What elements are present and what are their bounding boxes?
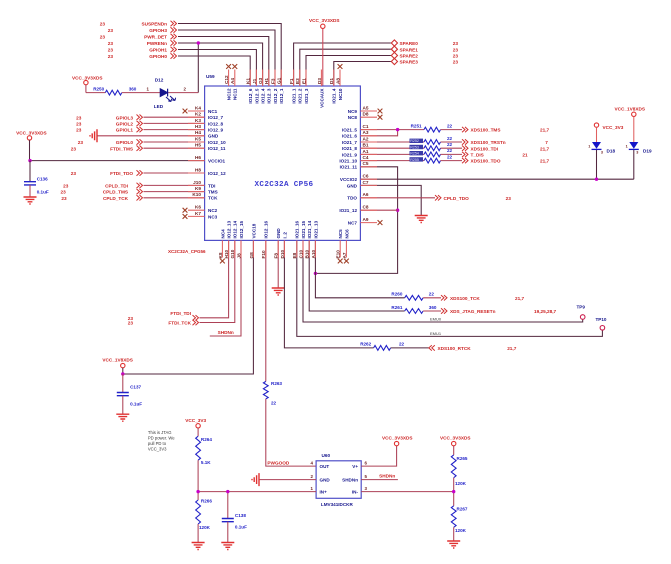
svg-text:H3: H3: [195, 124, 201, 129]
svg-text:This is JTAG: This is JTAG: [148, 430, 172, 435]
CPLD U59 body XC2C32A CP56: [205, 74, 361, 241]
off-page connector GPIOH3: [108, 27, 177, 33]
wire PWRENn to pin G3: [178, 43, 263, 86]
svg-text:XDS_JTAG_RESETn: XDS_JTAG_RESETn: [450, 309, 496, 314]
junction IO21_5/IO21_6: [396, 128, 399, 131]
capacitor C137: [117, 374, 142, 414]
junction R264/IN+: [196, 490, 199, 493]
wire PWGOOD to LDO OUT: [266, 399, 316, 466]
svg-text:IO12_3: IO12_3: [267, 88, 272, 104]
svg-text:IO12_12: IO12_12: [208, 171, 226, 176]
wire FTDI_TDO: [144, 172, 205, 174]
U59 top pin labels: [224, 64, 343, 108]
svg-text:K9: K9: [195, 186, 201, 191]
off-page connector PWRENn: [108, 40, 177, 46]
svg-text:VCC_3V3: VCC_3V3: [603, 125, 624, 130]
wire IO21_9 to R254: [360, 153, 424, 155]
svg-text:22: 22: [271, 401, 277, 406]
wire SHDNn to pin J8: [210, 240, 241, 336]
svg-text:GND: GND: [208, 134, 219, 139]
svg-text:U60: U60: [322, 453, 331, 458]
ground below C7: [415, 216, 428, 223]
svg-text:IO21_5: IO21_5: [342, 128, 358, 133]
svg-text:E8: E8: [292, 252, 297, 258]
svg-text:VCC_3V3: VCC_3V3: [185, 418, 206, 423]
wire VCC18 to VCC_1V8XDS rail: [123, 240, 254, 374]
svg-text:T_DIS: T_DIS: [471, 153, 484, 158]
junction VCCIO1/C136: [28, 159, 31, 162]
svg-text:NC3: NC3: [208, 214, 218, 219]
off-page connector GPIOH0: [108, 53, 177, 59]
resistor R254: [410, 148, 463, 157]
note text: [148, 430, 175, 452]
svg-text:K8: K8: [218, 252, 223, 258]
svg-text:360: 360: [129, 86, 137, 91]
svg-text:I_2: I_2: [282, 232, 287, 239]
off-page connector SPARE1: [391, 46, 458, 52]
svg-text:23: 23: [60, 190, 66, 195]
svg-text:IO21_6: IO21_6: [342, 134, 358, 139]
wire GND pin C7 to ground: [360, 185, 421, 215]
svg-text:K7: K7: [195, 211, 201, 216]
svg-text:23: 23: [76, 128, 82, 133]
off-page connector FTDI_TDO: [71, 170, 143, 176]
off-page connector FTDI_TDI: [128, 311, 199, 321]
svg-text:A10: A10: [311, 250, 316, 259]
diode D18: [588, 142, 615, 155]
svg-text:R254: R254: [410, 152, 419, 156]
svg-text:1: 1: [626, 144, 628, 148]
svg-text:K6: K6: [195, 205, 201, 210]
off-page connector GPIOL1: [76, 127, 142, 133]
svg-text:23: 23: [108, 41, 114, 46]
svg-text:NC6: NC6: [344, 229, 349, 239]
svg-text:NC10: NC10: [338, 88, 343, 100]
power symbol VCC_3V3XDS at VCCAUX: [309, 18, 339, 86]
svg-text:D18: D18: [607, 148, 616, 153]
svg-text:G3: G3: [258, 77, 263, 84]
svg-text:VCC_3V3XDS: VCC_3V3XDS: [382, 436, 412, 441]
off-page connector XDS100_TDI: [462, 146, 550, 152]
ground below C138: [221, 543, 234, 550]
svg-text:IO12_8: IO12_8: [208, 121, 224, 126]
wire FTDI_TDI to pin H10: [200, 240, 229, 317]
resistor R264: [196, 436, 213, 465]
svg-text:A7: A7: [342, 252, 347, 258]
svg-text:LED: LED: [154, 104, 164, 109]
svg-text:IO21_9: IO21_9: [342, 152, 358, 157]
svg-text:V+: V+: [352, 464, 358, 469]
svg-text:IO21_13: IO21_13: [313, 220, 318, 238]
ground below R266: [192, 543, 205, 550]
ground below R267: [447, 541, 460, 548]
svg-text:120K: 120K: [455, 481, 467, 486]
svg-text:XDS100_TCK: XDS100_TCK: [450, 296, 480, 301]
U59 bottom pin labels: [218, 220, 349, 263]
svg-text:H6: H6: [195, 155, 201, 160]
svg-text:5.1K: 5.1K: [201, 460, 211, 465]
svg-text:IO12_6: IO12_6: [248, 88, 253, 104]
svg-text:23: 23: [61, 196, 67, 201]
svg-text:IO12_1: IO12_1: [279, 88, 284, 104]
wire GPIOL1: [144, 129, 205, 131]
svg-text:H8: H8: [195, 167, 201, 172]
svg-text:XDS100_RTCK: XDS100_RTCK: [438, 346, 472, 351]
svg-text:IO21_7: IO21_7: [342, 140, 358, 145]
svg-text:E10: E10: [336, 250, 341, 259]
svg-text:IO12_16: IO12_16: [264, 220, 269, 238]
svg-text:D1: D1: [329, 78, 334, 84]
svg-text:IO21_1: IO21_1: [292, 88, 297, 104]
svg-text:GPIOL3: GPIOL3: [116, 115, 134, 120]
U59 pin stubs: [188, 70, 377, 258]
svg-text:NC7: NC7: [348, 221, 358, 226]
svg-text:H4: H4: [195, 130, 201, 135]
svg-text:22: 22: [399, 342, 405, 347]
svg-text:IO21_4: IO21_4: [332, 88, 337, 104]
svg-text:LMV341IDCKR: LMV341IDCKR: [321, 502, 354, 507]
svg-text:21: 21: [522, 153, 528, 158]
svg-text:23: 23: [453, 41, 459, 46]
net label EMU0: [430, 316, 442, 321]
resistor R265: [451, 455, 468, 486]
svg-text:23: 23: [506, 196, 512, 201]
wire EMU0 to TP9: [303, 240, 583, 322]
svg-text:A5: A5: [363, 105, 369, 110]
off-page connector CPLD_TCK: [61, 195, 142, 201]
resistor R251: [411, 123, 462, 132]
net label SHDNn: [218, 330, 234, 335]
svg-text:C10: C10: [298, 250, 303, 259]
wire U60 GND to ground: [259, 479, 316, 481]
wire GPIOL3: [144, 116, 205, 118]
svg-text:A8: A8: [335, 78, 340, 84]
svg-text:PD power. We: PD power. We: [148, 436, 175, 441]
svg-text:VCC18: VCC18: [251, 223, 256, 238]
svg-text:C6: C6: [363, 174, 369, 179]
svg-text:K10: K10: [192, 192, 201, 197]
off-page connector CPLD_TDI: [63, 183, 142, 189]
svg-text:R267: R267: [457, 507, 468, 512]
svg-text:0.1uF: 0.1uF: [235, 525, 247, 530]
svg-text:J10: J10: [193, 180, 201, 185]
svg-text:NC11: NC11: [233, 88, 238, 100]
svg-text:23: 23: [63, 184, 69, 189]
test point TP9: [577, 305, 586, 320]
svg-text:21,7: 21,7: [515, 296, 525, 301]
diode D19: [626, 142, 652, 155]
svg-text:IO21_12: IO21_12: [339, 208, 357, 213]
svg-text:R260: R260: [391, 292, 402, 297]
svg-text:IO21_14: IO21_14: [307, 220, 312, 238]
svg-text:H10: H10: [224, 250, 229, 259]
svg-text:A3: A3: [363, 130, 369, 135]
wire VCCIO2 to diodes D18 D19: [360, 149, 633, 179]
ground below F8: [272, 288, 285, 295]
capacitor C138: [222, 513, 247, 542]
svg-text:C7: C7: [363, 180, 369, 185]
capacitor C136: [24, 161, 49, 197]
svg-text:NC5: NC5: [338, 229, 343, 239]
svg-text:XDS100_TDO: XDS100_TDO: [471, 159, 501, 164]
svg-text:VCC_3V3XDS: VCC_3V3XDS: [440, 436, 470, 441]
svg-text:FTDI_TMS: FTDI_TMS: [110, 146, 133, 151]
wire GPIOH0 to pin K1: [178, 56, 250, 86]
svg-text:23: 23: [108, 28, 114, 33]
label XC2C32A_CPG56: [168, 249, 206, 254]
svg-text:VCCIO2: VCCIO2: [340, 177, 358, 182]
off-page connector CPLD_TDO: [435, 195, 511, 201]
wire GPIOH1 to pin J1: [178, 50, 256, 87]
op-amp U60 body: [316, 453, 361, 507]
wire PWR_DET to pin H1: [178, 37, 269, 87]
wire CPLD_TDI: [144, 184, 205, 186]
off-page connector SPARE0: [391, 40, 458, 46]
off-page connector XDS100_TCK: [441, 295, 525, 301]
svg-text:G1: G1: [277, 77, 282, 84]
power symbol VCC_3V3 at R264: [185, 418, 206, 436]
svg-text:K3: K3: [195, 118, 201, 123]
svg-text:SPARE0: SPARE0: [400, 41, 419, 46]
svg-text:A9: A9: [363, 217, 369, 222]
wire SPARE0 to pin F1: [294, 43, 391, 86]
svg-text:NC4: NC4: [220, 229, 225, 239]
U60 pin names: [320, 464, 359, 495]
svg-text:XDS100_TMS: XDS100_TMS: [471, 128, 501, 133]
svg-text:pull PD to: pull PD to: [148, 441, 167, 446]
svg-text:NC8: NC8: [348, 115, 358, 120]
ground below C137: [116, 414, 129, 421]
svg-text:GND: GND: [276, 228, 281, 239]
svg-text:NC1: NC1: [208, 109, 218, 114]
U59 right pin labels: [339, 105, 382, 225]
svg-text:R264: R264: [201, 437, 212, 442]
svg-text:22: 22: [447, 148, 453, 153]
svg-text:PWRENn: PWRENn: [147, 41, 167, 46]
junction VCCIO2/D18: [595, 178, 598, 181]
svg-text:1: 1: [588, 144, 590, 148]
svg-text:R253: R253: [410, 145, 419, 149]
svg-text:TDI: TDI: [208, 183, 215, 188]
svg-text:0.1uF: 0.1uF: [37, 189, 49, 194]
svg-text:IO12_5: IO12_5: [254, 88, 259, 104]
svg-text:VCC_3V3XDS: VCC_3V3XDS: [16, 131, 46, 136]
svg-text:R263: R263: [271, 381, 282, 386]
wire FTDI_TMS: [144, 147, 205, 149]
svg-text:SPARE1: SPARE1: [400, 47, 419, 52]
svg-text:IN-: IN-: [352, 490, 359, 495]
wire IO21_6 joins IO21_5: [360, 130, 397, 136]
wire SPARE3 to pin D1: [334, 62, 391, 87]
svg-text:FTDI_TCK: FTDI_TCK: [168, 321, 191, 326]
svg-text:TDO: TDO: [347, 196, 357, 201]
svg-text:IO21_11: IO21_11: [340, 165, 358, 170]
svg-text:23: 23: [71, 146, 77, 151]
svg-text:R250: R250: [93, 86, 104, 91]
resistor R253: [410, 142, 463, 151]
svg-text:IO21_16: IO21_16: [295, 220, 300, 238]
svg-text:TP10: TP10: [596, 317, 607, 322]
svg-text:GPIOH0: GPIOH0: [149, 54, 167, 59]
wire C138 tap: [227, 492, 229, 519]
svg-text:C4: C4: [363, 155, 369, 160]
svg-text:IO21_15: IO21_15: [301, 220, 306, 238]
svg-text:SPARE3: SPARE3: [400, 60, 419, 65]
off-page connector XDS100_RTCK: [429, 345, 517, 351]
wire I_2 to R262: [284, 240, 373, 348]
wire GND to left ground: [97, 135, 205, 137]
svg-text:K2: K2: [195, 112, 201, 117]
off-page connector SPARE3: [391, 58, 458, 64]
svg-text:360: 360: [429, 305, 437, 310]
off-page connector SPARE2: [391, 52, 458, 58]
svg-text:G10: G10: [230, 249, 235, 258]
svg-text:J1: J1: [252, 78, 257, 84]
svg-text:C1: C1: [363, 124, 369, 129]
svg-text:C136: C136: [37, 176, 48, 181]
svg-text:D8: D8: [363, 112, 369, 117]
svg-text:NC2: NC2: [208, 208, 218, 213]
wire R266 to ground: [197, 524, 199, 543]
svg-text:J8: J8: [236, 253, 241, 259]
net label EMU1: [430, 331, 442, 336]
svg-text:F10: F10: [261, 250, 266, 258]
svg-text:K5: K5: [195, 136, 201, 141]
svg-text:CPLD_TCK: CPLD_TCK: [103, 196, 129, 201]
svg-text:NC12: NC12: [227, 88, 232, 100]
svg-text:VCC_1V8XDS: VCC_1V8XDS: [615, 107, 645, 112]
wire IO21_8 to R253: [360, 147, 424, 149]
svg-text:GPIOL2: GPIOL2: [116, 122, 134, 127]
svg-text:B10: B10: [305, 250, 310, 259]
U59 left pin labels: [183, 105, 226, 219]
off-page connector XDS100_TMS: [462, 127, 550, 133]
svg-text:23: 23: [108, 48, 114, 53]
svg-text:22: 22: [447, 142, 453, 147]
svg-text:R265: R265: [457, 456, 468, 461]
svg-text:R255: R255: [410, 158, 419, 162]
svg-text:NC9: NC9: [348, 109, 358, 114]
off-page connector XDS100_TDO: [462, 158, 550, 164]
svg-text:IO12_15: IO12_15: [239, 220, 244, 238]
svg-text:CPLD_TDI: CPLD_TDI: [105, 184, 128, 189]
svg-text:TCK: TCK: [208, 196, 218, 201]
off-page connector FTDI_TCK: [128, 320, 199, 326]
wire V+ to VCC_3V3XDS: [361, 446, 396, 466]
wire SPARE1 to pin E3: [300, 49, 391, 86]
svg-text:PWGOOD: PWGOOD: [267, 461, 289, 466]
svg-text:23: 23: [76, 122, 82, 127]
resistor R261: [391, 305, 441, 314]
resistor R255: [410, 154, 463, 163]
svg-text:C138: C138: [235, 513, 246, 518]
resistor R267: [451, 506, 468, 533]
power symbol VCC_3V3 at D18: [594, 123, 623, 142]
svg-text:CPLD_TDO: CPLD_TDO: [444, 196, 470, 201]
svg-text:IO21_3: IO21_3: [304, 88, 309, 104]
svg-text:F3: F3: [270, 78, 275, 84]
svg-text:IO12_4: IO12_4: [261, 88, 266, 104]
svg-text:D3: D3: [317, 78, 322, 84]
svg-text:C137: C137: [130, 384, 141, 389]
wire IN- to divider: [361, 491, 454, 493]
wire IO21_5 to R251: [360, 129, 424, 131]
svg-text:H5: H5: [195, 143, 201, 148]
svg-text:XC2C32A_CPG56: XC2C32A_CPG56: [168, 249, 206, 254]
svg-text:CPLD_TMS: CPLD_TMS: [103, 190, 128, 195]
svg-text:SHDNn: SHDNn: [342, 478, 358, 483]
svg-text:IO21_8: IO21_8: [342, 146, 358, 151]
resistor R260: [391, 292, 441, 301]
svg-text:R262: R262: [360, 342, 371, 347]
svg-text:IO12_11: IO12_11: [208, 146, 226, 151]
svg-text:H1: H1: [264, 78, 269, 84]
power symbol VCC_3V3XDS at C136: [16, 131, 46, 161]
wire GPIOH3 to pin F3: [178, 30, 275, 86]
svg-text:22: 22: [447, 123, 453, 128]
svg-text:GND: GND: [320, 478, 331, 483]
svg-text:D12: D12: [155, 78, 164, 83]
svg-text:C5: C5: [363, 161, 369, 166]
svg-text:R251: R251: [411, 123, 422, 128]
svg-text:SHDNn: SHDNn: [379, 474, 395, 479]
test point TP10: [596, 317, 607, 330]
svg-text:IO21_10: IO21_10: [339, 159, 357, 164]
svg-text:IO12_7: IO12_7: [208, 115, 224, 120]
svg-text:K1: K1: [246, 78, 251, 84]
svg-text:23: 23: [453, 54, 459, 59]
svg-text:SPARE2: SPARE2: [400, 54, 419, 59]
svg-text:TMS: TMS: [208, 190, 218, 195]
junction IO21_11/IO21_12: [396, 209, 399, 212]
U60 pin numbers: [311, 461, 368, 492]
svg-text:C8: C8: [363, 205, 369, 210]
wire PWRENn branch to LED D12: [168, 43, 198, 93]
svg-text:GPIOH1: GPIOH1: [149, 48, 167, 53]
svg-text:E3: E3: [295, 78, 300, 84]
svg-text:VCCAUX: VCCAUX: [319, 88, 324, 108]
svg-text:SUSPENDn: SUSPENDn: [141, 22, 167, 27]
power symbol VCC_3V3XDS at R265: [440, 436, 470, 455]
svg-text:XDS100_TDI: XDS100_TDI: [471, 146, 499, 151]
net label PWGOOD: [267, 461, 289, 466]
svg-text:21,7: 21,7: [540, 159, 550, 164]
wire CPLD_TCK: [144, 197, 205, 199]
svg-text:VCC_3V3XDS: VCC_3V3XDS: [72, 76, 102, 81]
wire GPIOL0: [144, 141, 205, 143]
svg-text:21,7: 21,7: [540, 146, 550, 151]
wire R264 to R266: [197, 460, 199, 500]
svg-text:22: 22: [429, 292, 435, 297]
wire IO21_7 to R252: [360, 141, 424, 143]
svg-text:R261: R261: [391, 305, 402, 310]
svg-text:EMU1: EMU1: [430, 331, 442, 336]
svg-text:VCC_3V3XDS: VCC_3V3XDS: [309, 18, 339, 23]
ground left of IC: [90, 129, 97, 142]
resistor R263: [263, 381, 282, 406]
off-page connector SUSPENDn: [100, 21, 177, 27]
wire SUSPENDn to pin G1: [178, 24, 281, 87]
svg-text:VCC_1V8XDS: VCC_1V8XDS: [102, 357, 132, 362]
svg-text:IO12_13: IO12_13: [227, 220, 232, 238]
svg-text:21,7: 21,7: [507, 346, 517, 351]
svg-text:XDS100_TRSTn: XDS100_TRSTn: [471, 140, 506, 145]
svg-text:120K: 120K: [199, 525, 211, 530]
svg-text:FTDI_TDI: FTDI_TDI: [170, 311, 191, 316]
ground below C136: [24, 197, 37, 204]
svg-text:G8: G8: [249, 252, 254, 259]
svg-text:19,25,28,7: 19,25,28,7: [534, 309, 557, 314]
